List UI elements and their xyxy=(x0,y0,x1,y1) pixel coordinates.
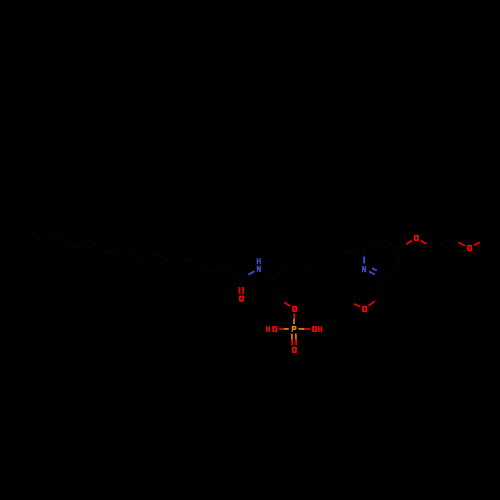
P label xyxy=(292,326,297,332)
methoxy O label xyxy=(362,306,367,312)
carbonyl O label xyxy=(239,296,244,302)
bond B-C xyxy=(320,254,344,274)
P=O oxygen label xyxy=(292,347,297,353)
wire alkyl chain bond 12 xyxy=(43,235,57,242)
bond O-CH2a xyxy=(421,240,427,244)
wire alkyl chain bond 5 xyxy=(156,253,175,266)
ring double bond N1=C2 xyxy=(369,272,375,275)
wire alkyl chain bond 11 xyxy=(57,235,76,248)
wire alkyl chain bond 4 xyxy=(175,259,189,266)
wire alkyl chain bond 9 xyxy=(90,241,109,254)
bond P-OH left xyxy=(284,328,289,330)
double bond P=O xyxy=(295,334,297,340)
OH right labels xyxy=(312,326,317,332)
wire alkyl chain bond 14 xyxy=(10,228,24,235)
ring N label xyxy=(362,266,366,272)
bond C-ring C6 xyxy=(344,248,364,254)
amide H label xyxy=(257,258,261,264)
bond O-CH3 xyxy=(354,304,360,307)
carbonyl C=O double bond xyxy=(242,280,244,287)
ester O label xyxy=(292,306,297,312)
ring double bond C3=C4 xyxy=(398,258,400,267)
wire alkyl chain bond 13 xyxy=(24,228,43,241)
ring double bond C5=C6 xyxy=(373,239,381,243)
bond C1-C2 xyxy=(270,281,277,298)
wire alkyl chain bond 10 xyxy=(76,241,90,248)
bond CH2b-O2 xyxy=(451,239,458,242)
bond ester O-P xyxy=(293,313,295,318)
bond CH2a-CH2b xyxy=(434,238,451,248)
wire alkyl chain bond 8 xyxy=(109,247,123,254)
bond amide N-C(=O) xyxy=(248,271,254,274)
amide N label xyxy=(257,266,261,272)
bond C2-O ester xyxy=(278,298,284,302)
ether O1 label xyxy=(414,235,419,241)
bond O2-CH3 xyxy=(474,242,480,245)
ring bond C4-C5 xyxy=(382,239,400,249)
ring bond C2-C3 xyxy=(382,268,400,277)
bond CH2-O xyxy=(375,296,381,301)
bond C4-O xyxy=(400,244,406,248)
ring bond N1-C6 xyxy=(363,257,365,264)
bond P-OH right xyxy=(298,328,304,330)
bond C2-CH2 xyxy=(381,278,383,296)
wire alkyl chain bond 7 xyxy=(123,247,142,260)
bond C1-A xyxy=(270,260,295,281)
wire alkyl chain bond 1 xyxy=(222,266,241,279)
wire alkyl chain bond 6 xyxy=(142,253,156,260)
bond N-C1 (drawn dark) xyxy=(262,272,266,276)
wire alkyl chain bond 2 xyxy=(208,266,222,273)
HO left labels xyxy=(266,326,270,332)
ether O2 label xyxy=(467,245,472,251)
wire alkyl chain bond 3 xyxy=(189,259,208,272)
bond A-B xyxy=(295,260,320,274)
